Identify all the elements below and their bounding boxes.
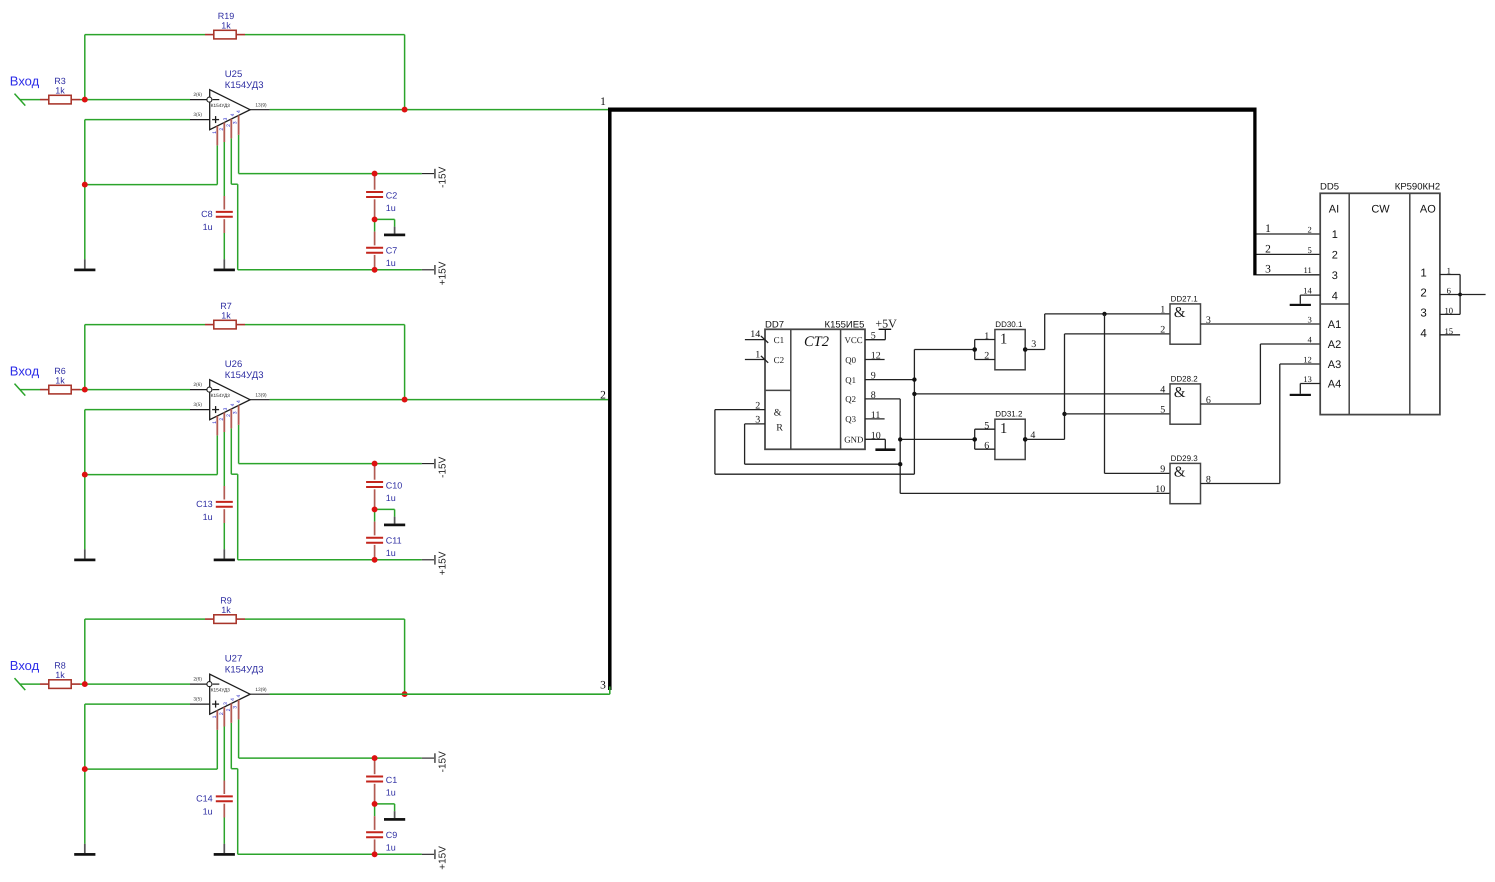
svg-text:1: 1 (1160, 305, 1165, 316)
svg-text:&: & (1174, 305, 1186, 321)
svg-text:11: 11 (1304, 265, 1312, 275)
svg-text:R3: R3 (54, 76, 66, 86)
svg-text:GND: GND (844, 435, 863, 445)
svg-text:5: 5 (1160, 405, 1165, 416)
svg-text:U27: U27 (225, 654, 242, 665)
svg-text:U25: U25 (225, 69, 242, 80)
svg-text:C2: C2 (386, 190, 398, 200)
svg-text:C11: C11 (386, 536, 402, 546)
svg-text:15: 15 (1445, 326, 1454, 336)
svg-text:Q1: Q1 (845, 375, 856, 385)
svg-text:2: 2 (1420, 288, 1426, 300)
svg-text:1: 1 (1000, 331, 1008, 347)
svg-text:5: 5 (984, 421, 989, 432)
svg-text:6: 6 (1447, 286, 1452, 296)
svg-text:C2: C2 (774, 355, 785, 365)
svg-text:11: 11 (871, 410, 881, 421)
svg-text:8: 8 (871, 390, 876, 401)
svg-text:3: 3 (755, 415, 760, 426)
svg-text:3: 3 (1265, 264, 1271, 276)
svg-text:A4: A4 (1328, 379, 1341, 391)
svg-text:10: 10 (1155, 484, 1165, 495)
svg-text:+5V: +5V (875, 317, 897, 331)
svg-text:AI: AI (1329, 203, 1339, 215)
svg-text:A1: A1 (1328, 319, 1341, 331)
svg-text:4: 4 (1308, 334, 1313, 344)
svg-text:9: 9 (871, 371, 876, 382)
svg-text:C1: C1 (386, 775, 398, 785)
svg-text:C13: C13 (196, 499, 213, 509)
svg-text:Q0: Q0 (845, 355, 856, 365)
svg-text:C10: C10 (386, 480, 403, 490)
svg-text:C7: C7 (386, 246, 398, 256)
svg-text:10: 10 (871, 430, 881, 441)
svg-text:2: 2 (1160, 325, 1165, 336)
svg-text:5: 5 (871, 331, 876, 342)
svg-text:2: 2 (1332, 250, 1338, 262)
svg-text:К155ИЕ5: К155ИЕ5 (825, 320, 865, 331)
svg-text:CW: CW (1371, 203, 1390, 215)
svg-text:4: 4 (1420, 328, 1427, 340)
svg-text:C9: C9 (386, 830, 398, 840)
svg-text:2: 2 (984, 351, 989, 362)
svg-text:R: R (776, 422, 783, 433)
svg-text:1: 1 (755, 349, 760, 360)
svg-text:4: 4 (1332, 290, 1338, 302)
svg-text:1: 1 (1000, 421, 1008, 437)
svg-text:1: 1 (984, 331, 989, 342)
svg-text:6: 6 (984, 440, 989, 451)
svg-text:DD7: DD7 (765, 320, 784, 331)
svg-text:R9: R9 (220, 595, 232, 605)
svg-text:DD31.2: DD31.2 (995, 410, 1023, 419)
svg-text:CT2: CT2 (804, 334, 829, 350)
svg-text:DD30.1: DD30.1 (995, 320, 1023, 329)
svg-text:13: 13 (1303, 374, 1312, 384)
svg-text:1: 1 (1265, 223, 1271, 235)
svg-text:14: 14 (750, 329, 760, 340)
svg-text:1: 1 (1447, 266, 1451, 276)
svg-text:5: 5 (1308, 245, 1312, 255)
svg-text:C1: C1 (774, 335, 785, 345)
svg-text:Q2: Q2 (845, 394, 856, 404)
svg-text:R6: R6 (54, 366, 66, 376)
svg-text:12: 12 (1303, 354, 1312, 364)
svg-text:U26: U26 (225, 359, 242, 370)
svg-text:9: 9 (1160, 464, 1165, 475)
svg-text:3: 3 (600, 680, 606, 692)
svg-text:R19: R19 (218, 11, 235, 21)
svg-text:C8: C8 (201, 209, 213, 219)
svg-text:C14: C14 (196, 794, 213, 804)
svg-text:AO: AO (1420, 203, 1436, 215)
svg-text:DD5: DD5 (1320, 182, 1339, 193)
svg-text:2: 2 (755, 400, 760, 411)
svg-text:1: 1 (600, 96, 606, 108)
svg-text:4: 4 (1160, 385, 1165, 396)
svg-text:2: 2 (600, 390, 606, 402)
svg-text:12: 12 (871, 351, 881, 362)
svg-text:&: & (1174, 385, 1186, 401)
svg-text:DD27.1: DD27.1 (1171, 295, 1199, 304)
svg-text:1: 1 (1420, 268, 1426, 280)
svg-text:A3: A3 (1328, 359, 1341, 371)
svg-text:Q3: Q3 (845, 414, 856, 424)
svg-text:3: 3 (1332, 270, 1338, 282)
svg-text:3: 3 (1420, 308, 1426, 320)
svg-text:&: & (774, 407, 782, 418)
svg-text:VCC: VCC (845, 335, 863, 345)
svg-text:2: 2 (1308, 224, 1312, 234)
svg-text:3: 3 (1308, 314, 1312, 324)
svg-text:КР590КН2: КР590КН2 (1395, 182, 1440, 193)
svg-text:3: 3 (1031, 339, 1036, 350)
svg-text:R8: R8 (54, 660, 66, 670)
svg-text:4: 4 (1030, 430, 1035, 441)
svg-text:2: 2 (1265, 243, 1271, 255)
svg-text:A2: A2 (1328, 339, 1341, 351)
svg-text:1: 1 (1332, 229, 1338, 241)
svg-text:R7: R7 (220, 301, 232, 311)
svg-text:14: 14 (1303, 286, 1312, 296)
svg-text:DD28.2: DD28.2 (1171, 375, 1199, 384)
svg-text:10: 10 (1445, 305, 1454, 315)
svg-text:DD29.3: DD29.3 (1171, 454, 1199, 463)
svg-text:&: & (1174, 464, 1186, 480)
